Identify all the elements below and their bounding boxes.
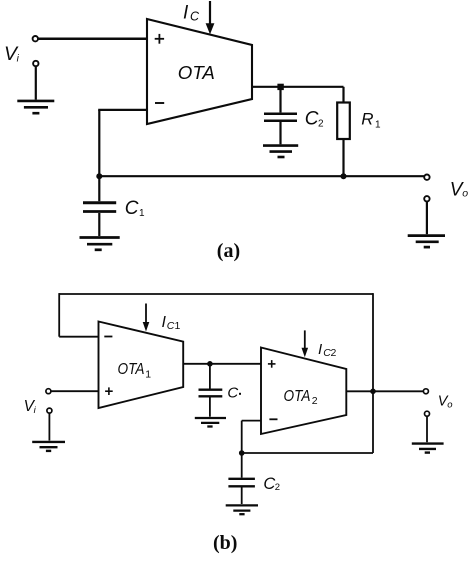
label Vi (a): [4, 43, 20, 65]
capacitor C2 (a) wire bottom: [279, 122, 281, 144]
current source arrow IC: [209, 1, 211, 25]
svg-text:2: 2: [275, 482, 280, 493]
ground GND-Vo-a: [408, 236, 445, 248]
op-amp plus sign (a): [155, 34, 164, 44]
op-amp OTA2 plus sign: [268, 360, 276, 368]
ground GND-C1a: [80, 238, 120, 250]
wire bottom rail (a): [99, 175, 424, 177]
capacitor C1 (b) plates: [199, 389, 223, 391]
svg-text:i: i: [17, 54, 20, 65]
capacitor C2 (b) wire bottom: [241, 487, 243, 504]
wire Vo terminal to ground: [426, 202, 428, 235]
wire terminal to ground (a): [35, 66, 37, 99]
op-amp minus sign (a): [155, 102, 164, 104]
svg-text:(b): (b): [213, 532, 237, 554]
resistor R1 body: [337, 103, 350, 140]
label IC1: [162, 314, 181, 332]
wire to OTA1 - input: [59, 336, 98, 338]
svg-text:1: 1: [139, 208, 145, 219]
svg-text:(a): (a): [217, 240, 240, 262]
wire feedback to OTA - input: [98, 109, 147, 111]
svg-text:o: o: [447, 400, 452, 411]
capacitor C2 (b) wire top: [241, 453, 243, 478]
wire feedback top rail (b): [59, 293, 373, 295]
label R1: [361, 110, 381, 131]
label Vo (a): [450, 179, 469, 200]
ground GND-C1b: [195, 418, 226, 427]
svg-text:2: 2: [331, 347, 337, 359]
svg-text:C: C: [190, 10, 200, 24]
op-amp OTA1 plus sign: [105, 387, 113, 395]
svg-text:1: 1: [375, 120, 381, 131]
wire feedback left vertical (b): [58, 293, 60, 337]
ground GND-Vo-b: [412, 444, 444, 453]
terminal Vi (a): [33, 36, 38, 41]
wire OTA output (a): [252, 86, 344, 88]
ground GND-C2a: [263, 146, 298, 157]
terminal Vo (b): [423, 389, 428, 394]
current source arrow IC2: [304, 330, 306, 348]
resistor R1 wire bottom: [342, 139, 344, 176]
wire bottom rail (b): [242, 452, 373, 454]
label OTA2: [284, 388, 318, 407]
wire OTA2 - input horizontal: [242, 420, 261, 422]
svg-text:C: C: [305, 108, 319, 129]
wire Vi to OTA + input: [38, 38, 147, 41]
op-amp OTA1 body: [99, 322, 184, 409]
terminal ground under Vi (b): [47, 408, 52, 413]
wire feedback vertical (a): [98, 110, 100, 176]
svg-text:C: C: [125, 198, 139, 219]
svg-text:2: 2: [318, 119, 324, 130]
label Vi (b): [24, 398, 37, 416]
terminal ground under Vi (a): [33, 61, 38, 66]
terminal Vi (b): [46, 389, 51, 394]
svg-text:C: C: [167, 320, 175, 332]
op-amp OTA2 body: [261, 348, 346, 435]
ground GND-C2b: [226, 505, 258, 514]
label IC (a): [183, 3, 200, 24]
node J2 R1 bottom: [341, 173, 347, 179]
wire OTA2 - input vertical down: [241, 421, 243, 453]
terminal ground under Vo (b): [425, 411, 430, 416]
svg-text:2: 2: [312, 395, 318, 407]
label OTA1: [118, 361, 152, 380]
ground GND-A1: [17, 101, 54, 113]
node C2 top (b): [239, 450, 245, 456]
op-amp OTA1 minus sign: [104, 336, 112, 338]
node output/feedback (b): [370, 389, 376, 395]
capacitor C1 (a) wire top: [98, 176, 100, 201]
capacitor C1 (b) wire bottom: [209, 397, 211, 416]
resistor R1 wire top: [342, 87, 344, 103]
node J3 C1 top: [96, 173, 102, 179]
node C1 top (b): [207, 361, 213, 367]
terminal Vo (a): [424, 175, 429, 180]
current source arrow IC1: [145, 304, 147, 323]
wire feedback right vertical (b): [372, 293, 374, 453]
ground GND-Vi-b: [32, 442, 65, 451]
wire terminal to ground (b): [48, 413, 50, 440]
label C2 (b): [263, 475, 280, 493]
label Vo (b): [438, 394, 453, 411]
svg-text:o: o: [462, 187, 468, 199]
svg-text:I: I: [183, 3, 189, 24]
capacitor C1 (b) wire top: [209, 364, 211, 389]
svg-text:OTA: OTA: [178, 62, 215, 83]
capacitor C2 (a) plates: [264, 112, 297, 115]
svg-text:R: R: [361, 110, 373, 129]
op-amp OTA2 minus sign: [269, 418, 277, 420]
svg-text:I: I: [318, 341, 322, 358]
capacitor C1 (a) plates: [83, 201, 116, 204]
svg-text:i: i: [34, 405, 37, 416]
svg-text:1: 1: [175, 320, 181, 332]
capacitor C2 (b) plates: [228, 478, 255, 480]
op-amp OTA (a) body: [147, 19, 252, 124]
wire OTA2 output to Vo: [346, 390, 423, 392]
svg-text:OTA: OTA: [284, 388, 311, 405]
svg-text:1: 1: [145, 368, 151, 380]
wire Vi to OTA1 + input: [51, 390, 99, 392]
svg-text:OTA: OTA: [118, 361, 145, 378]
svg-text:C: C: [227, 385, 238, 402]
label C1 (a): [125, 198, 145, 219]
wire Vo terminal to ground (b): [426, 416, 428, 442]
capacitor C1 (a) wire bottom: [98, 213, 100, 236]
capacitor C2 (a) wire top: [279, 87, 281, 113]
label IC2: [318, 341, 337, 359]
terminal ground under Vo (a): [424, 196, 429, 201]
svg-text:C: C: [263, 475, 275, 493]
node J1 (output/C2): [277, 84, 283, 90]
wire OTA1 output to OTA2 + input: [183, 363, 261, 365]
label C1 (b): [227, 385, 241, 402]
label C2 (a): [305, 108, 324, 129]
